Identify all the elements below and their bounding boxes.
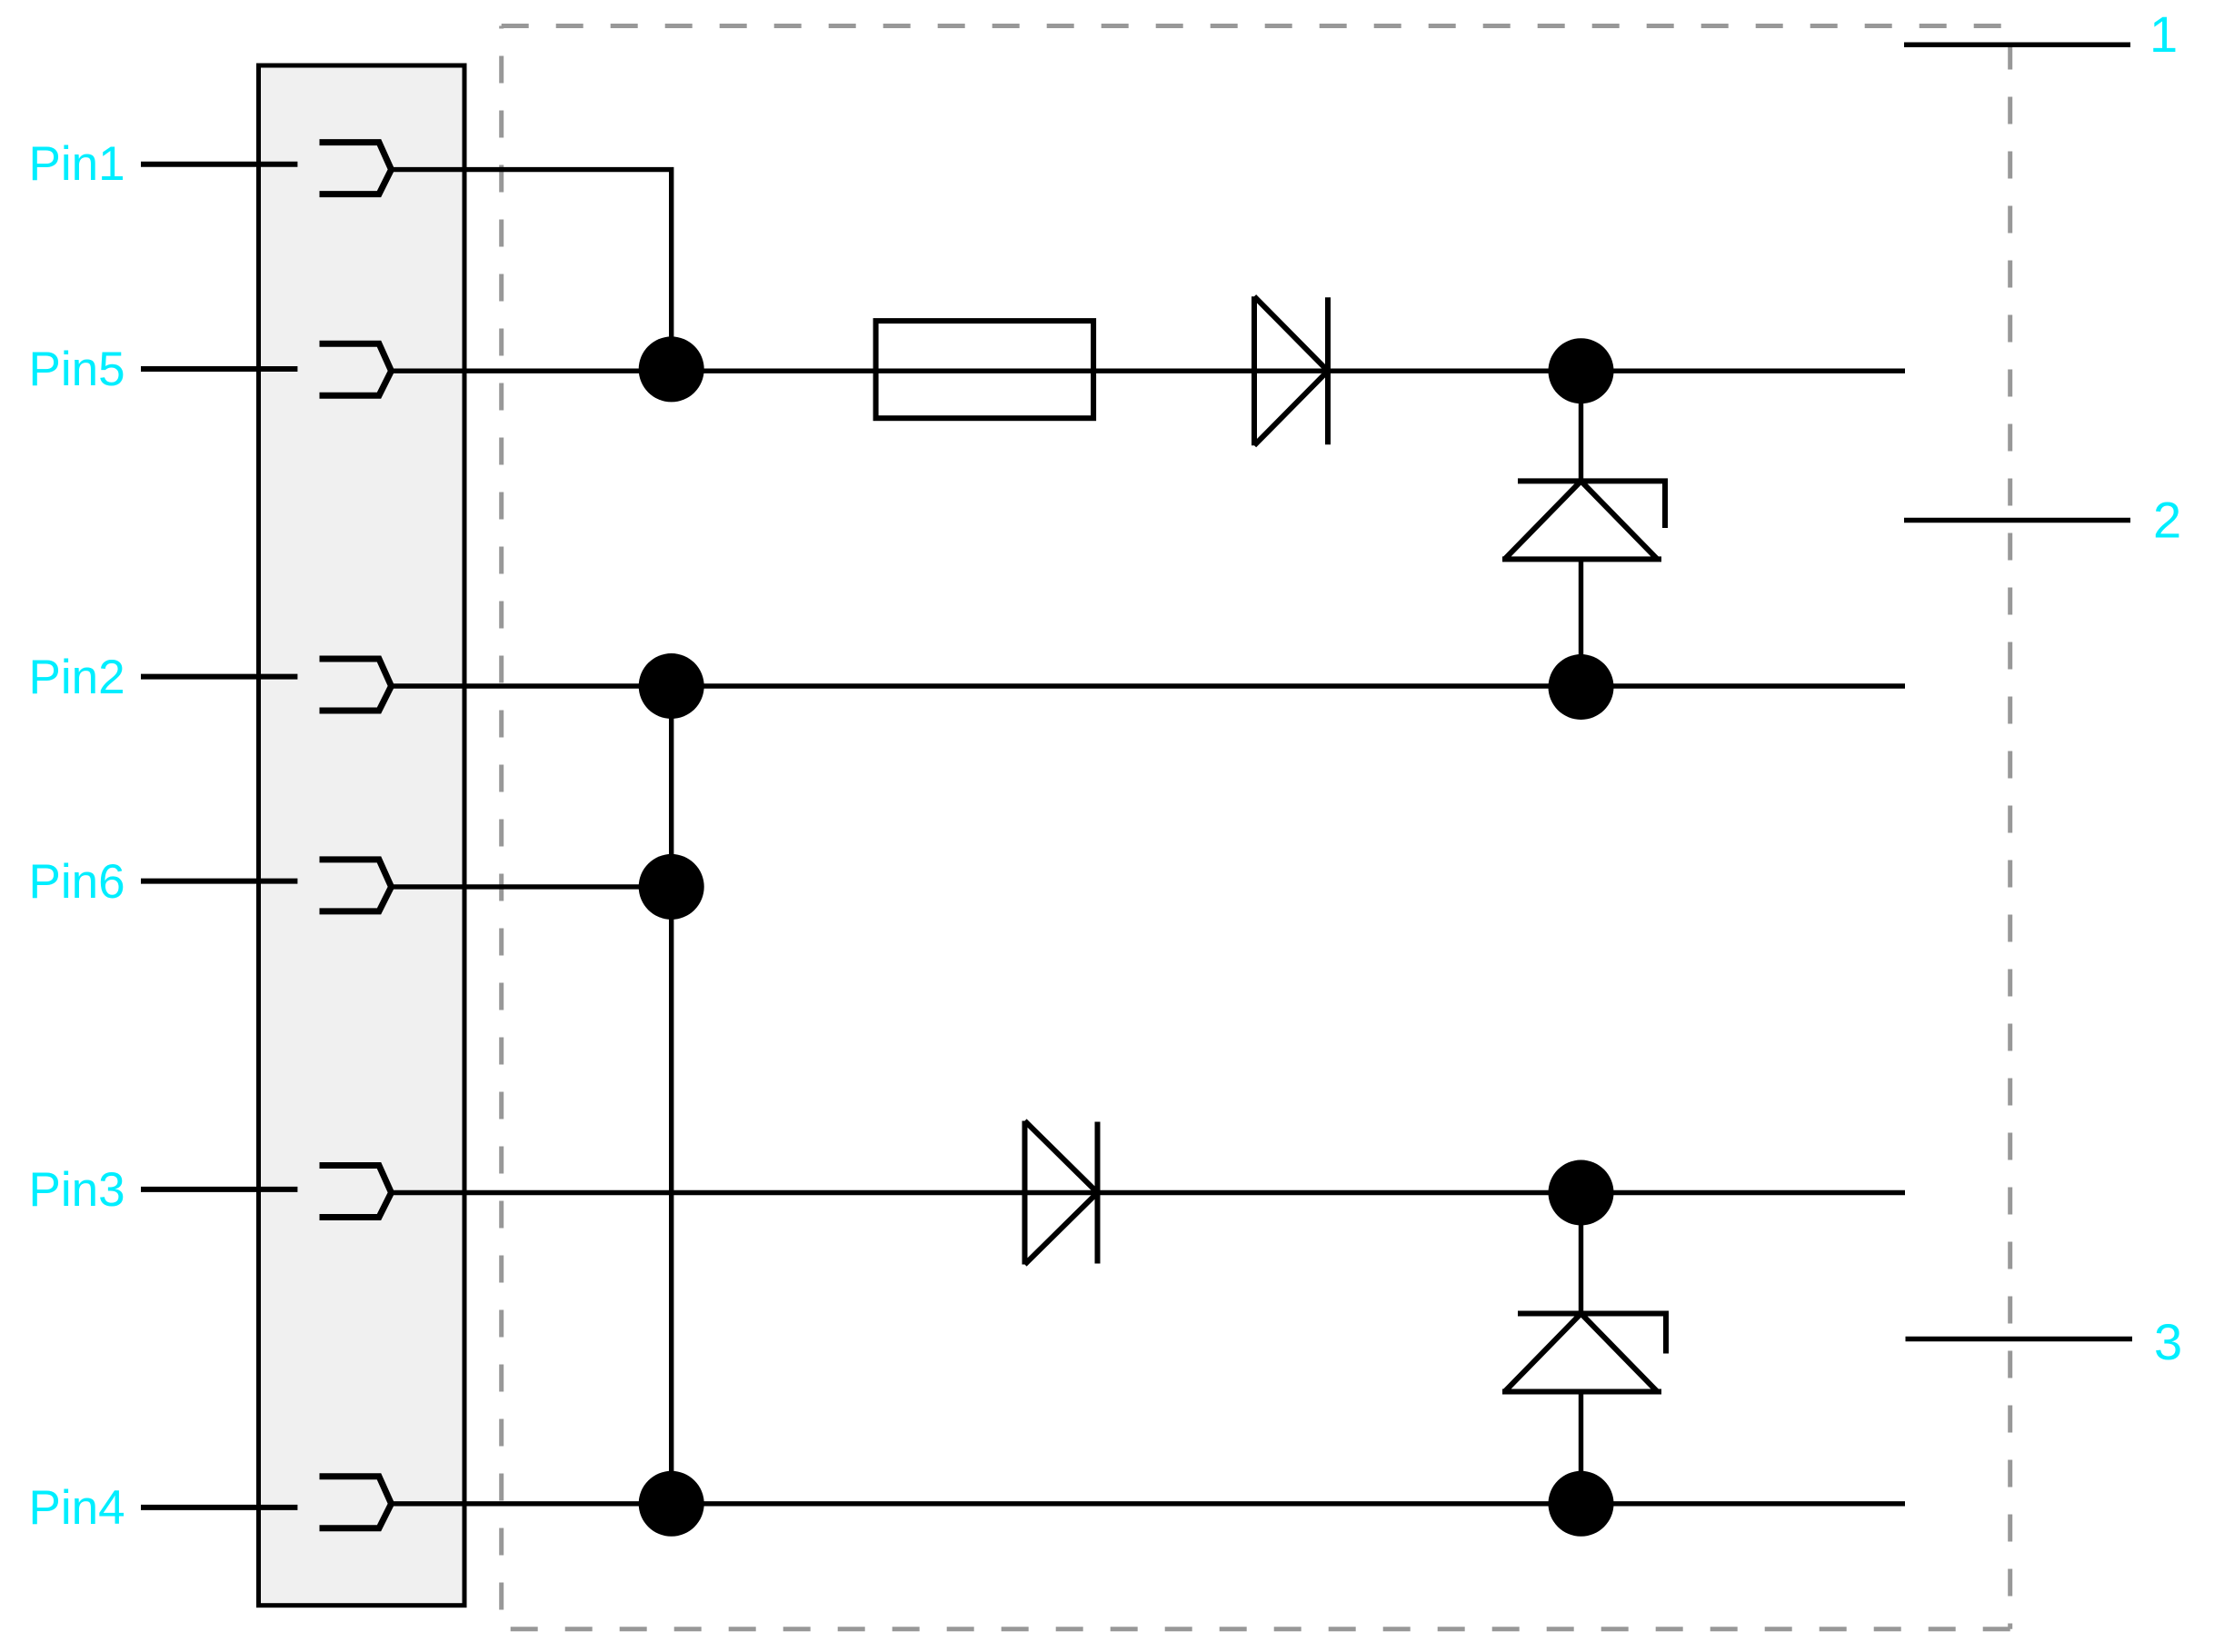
svg-text:Pin4: Pin4 [29,1481,125,1535]
svg-text:2: 2 [2153,491,2181,548]
svg-text:3: 3 [2154,1313,2182,1370]
svg-text:Pin6: Pin6 [29,855,125,909]
svg-text:Pin1: Pin1 [29,137,125,191]
svg-text:1: 1 [2149,5,2178,63]
svg-text:Pin2: Pin2 [29,651,125,704]
svg-text:Pin5: Pin5 [29,343,125,396]
svg-text:Pin3: Pin3 [29,1163,125,1217]
